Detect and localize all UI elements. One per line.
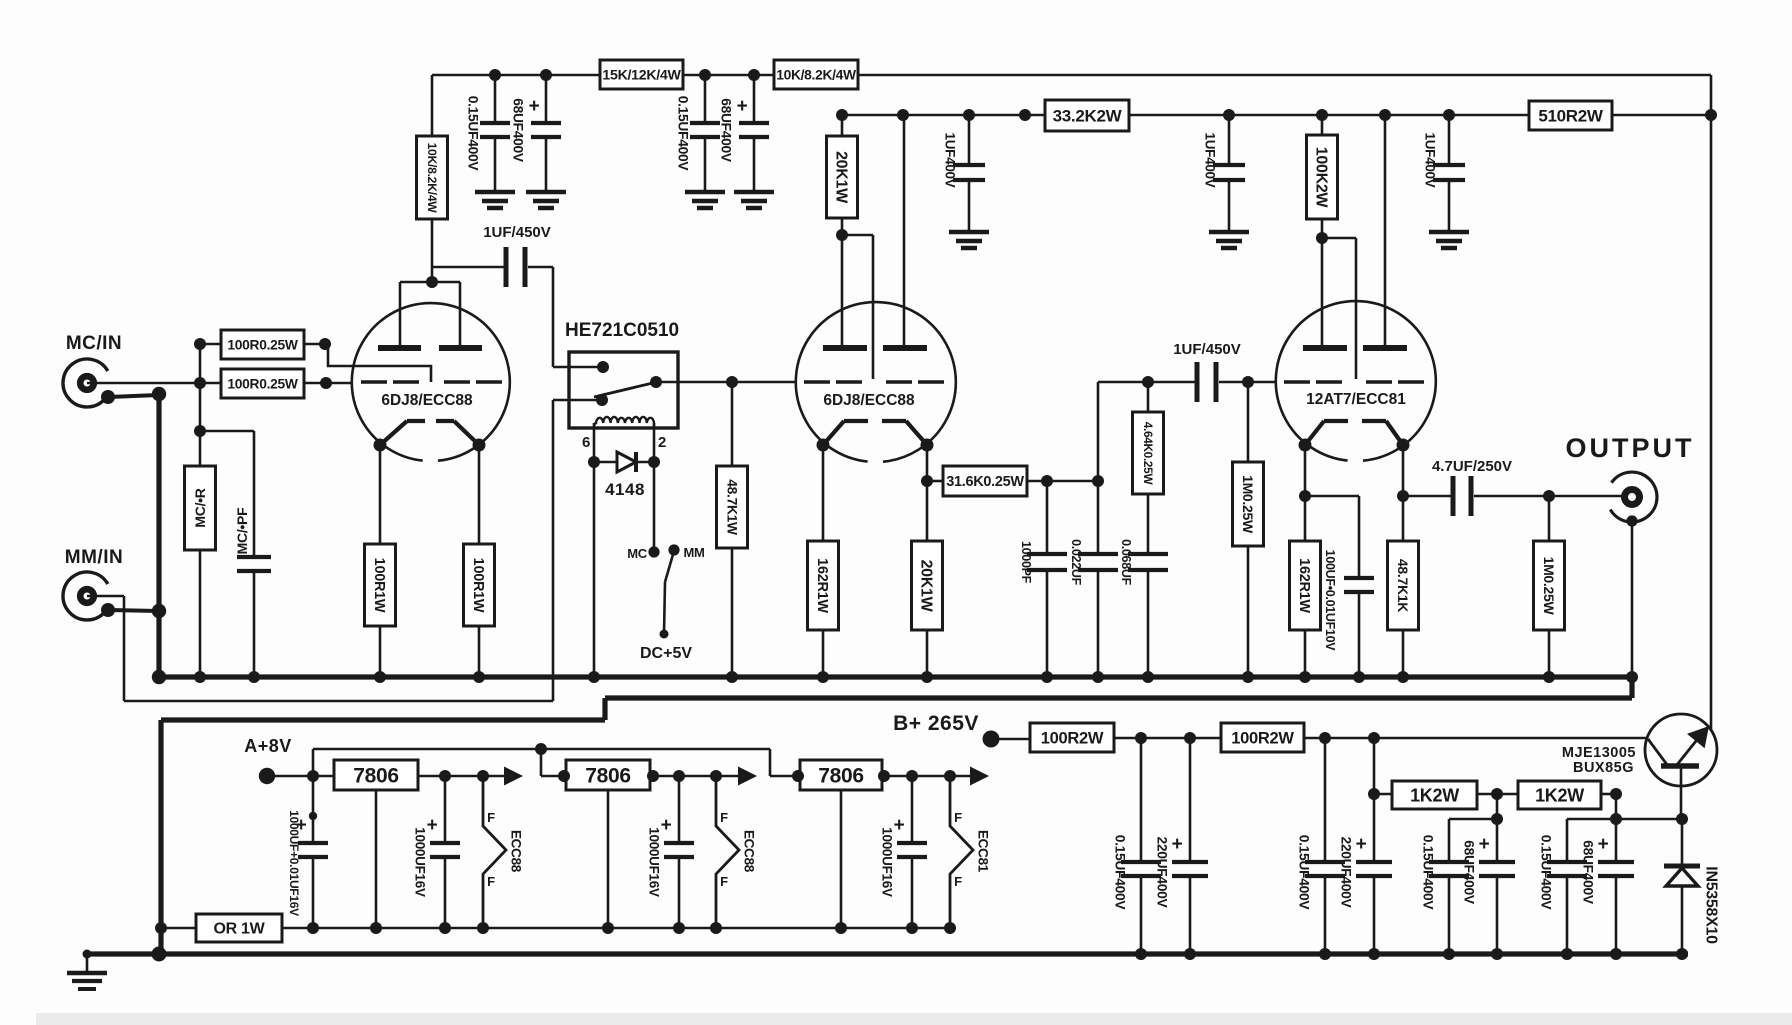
svg-text:0.15UF400V: 0.15UF400V — [1296, 835, 1311, 911]
wire filter node 4 — [1567, 818, 1616, 821]
arrow to next stage 1 — [504, 767, 523, 786]
svg-text:F: F — [720, 810, 728, 825]
capacitor 1000UF16V stage2 — [678, 776, 681, 843]
relay coil pin 6 lead — [593, 423, 596, 462]
resistor 1K2W — [1518, 781, 1601, 809]
resistor 33.2K2W — [1045, 100, 1129, 131]
resistor 4.64K0.25W — [1133, 412, 1164, 494]
node 1K2W input — [1368, 788, 1380, 800]
svg-text:100R2W: 100R2W — [1041, 729, 1104, 747]
relay switch arm — [594, 382, 657, 397]
resistor 1M0.25W — [1233, 462, 1264, 546]
7806#2 ground pin — [607, 790, 610, 928]
MM jack shield tab — [101, 603, 115, 617]
capacitor 1UF/450V coupling (V2 to V3) — [1195, 362, 1200, 402]
connector MM/IN RCA jack — [63, 572, 108, 620]
wire rail drop to regulator 2 — [540, 749, 543, 776]
resistor 100R1W — [365, 544, 396, 626]
svg-text:1UF400V: 1UF400V — [1422, 133, 1437, 188]
svg-text:4148: 4148 — [605, 480, 645, 499]
svg-text:2: 2 — [658, 434, 666, 451]
svg-text:MM: MM — [683, 545, 704, 560]
svg-text:68UF400V: 68UF400V — [718, 98, 733, 163]
svg-text:100R1W: 100R1W — [371, 558, 387, 613]
node 1M grid leak tap — [1242, 376, 1254, 388]
resistor 10K/8.2K/4W — [774, 60, 858, 89]
svg-text:100UF•0.01UF10V: 100UF•0.01UF10V — [1323, 550, 1337, 652]
ground — [475, 190, 515, 195]
V3 grid dashed line — [1284, 380, 1310, 384]
svg-text:F: F — [487, 874, 495, 889]
arrow to next stage 2 — [738, 767, 757, 786]
svg-text:1K2W: 1K2W — [1410, 785, 1459, 805]
resistor 20K1W — [912, 541, 943, 630]
wire pin2 to MC contact — [653, 462, 656, 552]
resistor 100K2W — [1307, 135, 1338, 219]
switch contact MC — [648, 546, 659, 557]
svg-text:4.7UF/250V: 4.7UF/250V — [1432, 458, 1512, 475]
svg-text:6DJ8/ECC88: 6DJ8/ECC88 — [823, 392, 915, 409]
svg-text:BUX85G: BUX85G — [1573, 760, 1634, 776]
capacitor 4.7UF/250V output coupling — [1403, 495, 1451, 498]
capacitor 1000UF+0.01UF16V — [312, 776, 315, 843]
capacitor 68UF400V (filter 3) — [1496, 819, 1499, 862]
V1 cathode leads — [380, 421, 407, 445]
wire 100R2W#2 to transistor base — [1304, 737, 1646, 740]
wire branch to coupling cap — [432, 266, 505, 269]
ground symbol main — [86, 954, 89, 973]
wire V3 grid feed — [1322, 237, 1356, 240]
svg-text:A+8V: A+8V — [244, 736, 292, 756]
node V2 anode/grid tie — [836, 229, 848, 241]
capacitor 1000UF16V stage1 — [444, 776, 447, 843]
node V2 cathode / 31.6K — [921, 475, 933, 487]
relay coil — [594, 417, 654, 429]
wire 7806#2 output — [650, 775, 738, 778]
svg-text:0.15UF400V: 0.15UF400V — [1112, 835, 1127, 911]
relay HE721C0510 body — [569, 352, 678, 428]
svg-text:10K/8.2K/4W: 10K/8.2K/4W — [425, 143, 439, 214]
svg-text:6: 6 — [582, 434, 590, 451]
svg-text:162R1W: 162R1W — [814, 558, 830, 613]
heater symbol ECC81 (stage3) — [950, 776, 973, 928]
V1 anode plate left — [378, 345, 421, 351]
capacitor 0.15UF400V (filter 4) — [1566, 819, 1569, 862]
svg-text:48.7K1K: 48.7K1K — [1395, 559, 1411, 612]
junction dots bottom bus — [83, 950, 92, 959]
wire 7806#3 output — [882, 775, 970, 778]
V3 cathode dashes — [1324, 419, 1348, 423]
resistor OR 1W — [196, 914, 282, 942]
svg-text:+: + — [529, 96, 540, 117]
relay fixed contact (from MC stage) — [597, 361, 609, 373]
capacitor 100UF+0.01UF10V bypass — [1305, 495, 1359, 498]
svg-text:1000UF16V: 1000UF16V — [412, 827, 427, 897]
resistor 162R1W — [808, 541, 839, 630]
svg-text:B+ 265V: B+ 265V — [893, 712, 979, 735]
svg-text:1UF400V: 1UF400V — [1202, 133, 1217, 188]
V3 anode plate left — [1303, 345, 1347, 351]
wire R2 output to V1 grid — [326, 382, 353, 385]
resistor 31.6K0.25W — [927, 480, 943, 483]
ground bus step down — [602, 698, 607, 720]
capacitor 68UF400V electrolytic (second PSU filter) — [753, 75, 756, 123]
svg-text:1K2W: 1K2W — [1535, 785, 1584, 805]
node tap for 0.15UF cap — [489, 69, 501, 81]
capacitor MC/•PF — [237, 555, 271, 559]
svg-text:20K1W: 20K1W — [833, 151, 850, 204]
svg-text:HE721C0510: HE721C0510 — [565, 320, 679, 341]
svg-text:ECC88: ECC88 — [741, 830, 756, 873]
resistor 48.7K1W — [717, 466, 748, 548]
ground — [685, 190, 725, 195]
resistor 31.6K0.25W — [943, 466, 1027, 496]
ground bus elbow right — [1629, 677, 1634, 698]
svg-text:162R1W: 162R1W — [1296, 558, 1312, 613]
wire B+ to 100R2W — [991, 738, 1030, 741]
svg-text:68UF400V: 68UF400V — [510, 98, 525, 163]
svg-text:1UF400V: 1UF400V — [942, 133, 957, 188]
resistor 1M0.25W V3 grid leak — [1247, 382, 1250, 462]
svg-text:7806: 7806 — [353, 764, 399, 787]
wire cap to relay common — [528, 266, 553, 269]
svg-text:ECC88: ECC88 — [508, 830, 523, 873]
footer gray strip (decor) — [36, 1013, 1792, 1025]
ground — [949, 230, 989, 235]
svg-text:F: F — [487, 810, 495, 825]
triode V1 6DJ8/ECC88 envelope — [352, 303, 510, 461]
relay movable contact pivot — [596, 394, 608, 406]
svg-text:100R1W: 100R1W — [470, 558, 486, 613]
resistor MC/•R — [185, 466, 216, 550]
wire filter node 3 — [1449, 818, 1497, 821]
DC control switch arm — [665, 551, 674, 582]
resistor 1M0.25W — [1534, 541, 1565, 630]
node 0.022UF tap / riser — [1092, 475, 1104, 487]
svg-text:68UF400V: 68UF400V — [1461, 840, 1476, 905]
svg-text:0.15UF400V: 0.15UF400V — [675, 96, 690, 172]
svg-text:100R2W: 100R2W — [1231, 729, 1294, 747]
wire to emitter node — [1616, 818, 1682, 821]
resistor 100R2W — [1030, 723, 1114, 752]
ground — [526, 190, 566, 195]
resistor 7806 — [566, 760, 650, 790]
node left cathode / bypass tap — [1299, 490, 1311, 502]
resistor 162R1W V2 left cathode — [822, 445, 825, 541]
resistor 7806 — [334, 760, 418, 790]
resistor 100R0.25W — [221, 330, 304, 359]
resistor 100R0.25W — [221, 369, 304, 398]
capacitor 1UF400V decoupling 2 — [1228, 115, 1231, 165]
capacitor 1UF/450V coupling (V1 anode) — [504, 247, 509, 287]
svg-text:F: F — [954, 810, 962, 825]
svg-text:0.15UF400V: 0.15UF400V — [1420, 835, 1435, 911]
wire rail drop to regulator 3 — [769, 749, 772, 776]
wire B+ sub-rail segment 1 — [842, 114, 1045, 117]
svg-text:1M0.25W: 1M0.25W — [1541, 557, 1557, 616]
svg-text:20K1W: 20K1W — [918, 560, 935, 613]
wire V2 right cathode — [926, 445, 929, 541]
svg-text:MC/IN: MC/IN — [66, 333, 122, 354]
wire V1 cathode left to resistor — [379, 445, 382, 544]
resistor 510R2W — [1529, 101, 1612, 130]
svg-text:12AT7/ECC81: 12AT7/ECC81 — [1306, 391, 1406, 408]
svg-text:48.7K1W: 48.7K1W — [724, 479, 739, 536]
V2 anode plate right — [883, 345, 927, 351]
wire top B+ rail segment 3 — [858, 74, 1711, 77]
resistor 1M0.25W output load — [1548, 496, 1551, 541]
connector OUTPUT RCA jack — [1610, 472, 1657, 522]
capacitor 0.15UF400V (filter 3) — [1448, 819, 1451, 862]
svg-text:OUTPUT: OUTPUT — [1566, 433, 1695, 463]
Q1 emitter lead — [1680, 766, 1683, 819]
MC jack shield tab — [101, 390, 115, 404]
wire right-side vertical (collector riser) — [1710, 75, 1713, 731]
terminal A+8V — [259, 768, 275, 784]
capacitor 220UF400V (B+ filter 1) — [1189, 738, 1192, 862]
heater symbol ECC88 (stage1) — [483, 776, 506, 928]
Q1 base diagonal — [1648, 739, 1668, 766]
svg-text:F: F — [720, 874, 728, 889]
ground bus return (thick) — [605, 695, 1632, 700]
node tap for 68UF cap — [540, 69, 552, 81]
wire V1 cathode right to resistor — [478, 445, 481, 544]
svg-text:220UF400V: 220UF400V — [1154, 837, 1169, 909]
svg-text:100K2W: 100K2W — [1313, 147, 1330, 209]
resistor 10K/8.2K/4W — [417, 136, 448, 219]
V3 anode plate right — [1363, 345, 1407, 351]
wire pin6 to ground bus — [593, 462, 596, 677]
svg-text:100R0.25W: 100R0.25W — [227, 376, 298, 391]
svg-text:0.068UF: 0.068UF — [1119, 539, 1133, 586]
svg-text:ECC81: ECC81 — [975, 830, 990, 873]
wire down to filter node 3 — [1496, 794, 1499, 819]
svg-text:1UF/450V: 1UF/450V — [483, 224, 551, 241]
resistor OR 1W — [161, 927, 196, 930]
svg-text:1000UF+0.01UF16V: 1000UF+0.01UF16V — [287, 810, 301, 916]
svg-text:MJE13005: MJE13005 — [1562, 745, 1636, 761]
connector MC/IN RCA jack — [63, 359, 108, 407]
wire top B+ rail segment 2 — [683, 74, 774, 77]
svg-text:0.022UF: 0.022UF — [1069, 539, 1083, 586]
V2 cathode dashes — [844, 419, 868, 423]
wire between 100R resistors — [1114, 737, 1221, 740]
wire R1 output to V1 grid (stepped) — [325, 344, 431, 382]
svg-text:IN5358X10: IN5358X10 — [1703, 866, 1720, 944]
node V3 anode/grid tie — [1316, 232, 1328, 244]
V3 cathode leads — [1305, 421, 1324, 445]
svg-text:510R2W: 510R2W — [1538, 106, 1604, 125]
diode IN5358X10 zener — [1681, 819, 1684, 866]
svg-text:+: + — [1479, 834, 1490, 855]
node 4.64K top — [1142, 376, 1154, 388]
svg-text:+: + — [1356, 834, 1367, 855]
resistor 15K/12K/4W — [600, 60, 683, 89]
capacitor 0.022UF — [1097, 481, 1100, 554]
V1 grid dashed line — [361, 380, 387, 384]
V1 cathode dashes — [407, 419, 425, 423]
junction dots on main ground bus — [152, 670, 166, 684]
resistor 4.64K0.25W — [1147, 382, 1150, 412]
capacitor 1000UF16V stage3 — [911, 776, 914, 843]
wire 7806#1 output — [418, 775, 504, 778]
svg-text:+: + — [1172, 834, 1183, 855]
svg-text:0.15UF400V: 0.15UF400V — [465, 96, 480, 172]
svg-text:DC+5V: DC+5V — [640, 645, 692, 662]
svg-text:4.64K0.25W: 4.64K0.25W — [1141, 422, 1155, 486]
resistor 162R1W — [1290, 541, 1321, 630]
V2 cathode leads — [823, 421, 844, 445]
wire MM routing to relay — [124, 700, 553, 703]
heater feed rail — [313, 748, 770, 751]
capacitor 1000PF — [1046, 481, 1049, 554]
node right cathode / output tap — [1397, 490, 1409, 502]
ground — [1429, 230, 1469, 235]
resistor 7806 — [800, 760, 882, 790]
svg-text:1000PF: 1000PF — [1019, 541, 1033, 584]
svg-text:31.6K0.25W: 31.6K0.25W — [946, 474, 1024, 490]
wire V3 left cathode — [1304, 445, 1307, 541]
svg-text:1000UF16V: 1000UF16V — [646, 827, 661, 897]
capacitor 0.15UF400V (second PSU filter) — [704, 75, 707, 123]
wire resistor to coupling cap node — [431, 219, 434, 282]
wire shield ground riser (thick) — [156, 394, 161, 677]
resistor 48.7K1K — [1388, 541, 1419, 630]
svg-text:MC: MC — [627, 546, 648, 561]
ground — [734, 190, 774, 195]
node between 1K2W — [1491, 788, 1503, 800]
resistor 20K1W V2 plate load — [841, 115, 844, 136]
capacitor 0.15UF400V (B+ filter 1) — [1140, 738, 1143, 862]
resistor 100R1W — [464, 544, 495, 626]
resistor 48.7K1W grid leak — [726, 376, 738, 388]
wire cap to V3 grid — [1219, 381, 1276, 384]
svg-text:MM/IN: MM/IN — [65, 547, 123, 568]
svg-text:F: F — [954, 874, 962, 889]
wire RIAA node riser — [1097, 382, 1100, 481]
arrow output stage 3 — [970, 767, 989, 786]
resistor 1K2W — [1392, 781, 1477, 809]
node after input resistor 1 — [319, 338, 331, 350]
svg-text:1000UF16V: 1000UF16V — [879, 827, 894, 897]
node 1K2W output — [1610, 788, 1622, 800]
svg-text:220UF400V: 220UF400V — [1338, 837, 1353, 909]
wire OUTPUT shield to ground bus — [1631, 521, 1634, 677]
Q1 base bar — [1661, 763, 1699, 769]
resistor 100K2W V3 plate load — [1321, 115, 1324, 135]
7806#3 ground pin — [840, 790, 843, 928]
capacitor 1UF400V decoupling 3 — [1448, 115, 1451, 165]
node 1000PF tap — [1041, 475, 1053, 487]
capacitor 0.15UF400V (B+ filter 2) — [1324, 738, 1327, 862]
OUTPUT jack shield tab — [1626, 515, 1637, 526]
wire V3 right cathode — [1402, 445, 1405, 541]
wire B+ sub-rail segment 2 — [1129, 114, 1529, 117]
svg-text:100R0.25W: 100R0.25W — [227, 337, 298, 352]
capacitor 0.15UF400V (first PSU filter) — [494, 75, 497, 123]
node output / 1M tap — [1543, 490, 1555, 502]
svg-text:15K/12K/4W: 15K/12K/4W — [602, 67, 681, 83]
capacitor 1UF400V decoupling 1 — [968, 115, 971, 165]
svg-text:1UF/450V: 1UF/450V — [1173, 341, 1241, 358]
node sub-rail to collector riser — [1705, 109, 1717, 121]
wire MM center pin — [87, 595, 124, 598]
V1 anode plate right — [439, 345, 482, 351]
wire B+ sub-rail segment 3 — [1612, 114, 1711, 117]
svg-text:0.15UF400V: 0.15UF400V — [1538, 835, 1553, 911]
wire MC center pin to input resistors — [87, 382, 200, 385]
ground bus lower left (thick) — [161, 717, 605, 722]
node tap for 0.15UF cap 2 — [699, 69, 711, 81]
Q1 collector diagonal with arrow — [1676, 736, 1700, 766]
V2 anode plate left — [823, 345, 867, 351]
ground — [1209, 230, 1249, 235]
wire V2 right anode to rail — [903, 115, 906, 348]
ground left border (thick) — [158, 720, 163, 954]
svg-text:+: + — [1598, 834, 1609, 855]
node after input resistor 2 — [320, 377, 332, 389]
svg-text:7806: 7806 — [585, 764, 631, 787]
svg-text:33.2K2W: 33.2K2W — [1053, 106, 1123, 125]
wire relay output to V2 grid — [656, 381, 796, 384]
wire A+8V to regulator 1 — [267, 775, 334, 778]
ground bottom bus (thick) — [87, 951, 1688, 956]
diode 4148 flyback — [588, 456, 600, 468]
svg-text:6DJ8/ECC88: 6DJ8/ECC88 — [381, 392, 473, 409]
capacitor 0.068UF — [1147, 494, 1150, 554]
wire top B+ rail segment 1 — [432, 74, 600, 77]
wire V2 grid feed — [842, 234, 873, 237]
triode V2 6DJ8/ECC88 envelope — [796, 302, 956, 462]
V1 anode bracket — [400, 281, 460, 284]
wire MC/R to ground bus — [199, 550, 202, 677]
triode V3 12AT7/ECC81 envelope — [1276, 301, 1436, 461]
svg-text:MC/•PF: MC/•PF — [234, 507, 250, 554]
PSU internal ground rail — [282, 927, 956, 930]
switch contact MM — [668, 544, 679, 555]
resistor 20K1W — [827, 136, 858, 218]
wire left drop from top rail to series resistor — [431, 75, 434, 136]
heater symbol ECC88 (stage2) — [716, 776, 739, 928]
svg-text:1M0.25W: 1M0.25W — [1240, 475, 1256, 534]
resistor 100R2W — [1221, 723, 1304, 752]
wire input node vertical — [199, 344, 202, 466]
capacitor 220UF400V (B+ filter 2) — [1373, 738, 1376, 862]
svg-text:68UF400V: 68UF400V — [1580, 840, 1595, 905]
svg-text:+: + — [737, 96, 748, 117]
svg-text:10K/8.2K/4W: 10K/8.2K/4W — [776, 67, 857, 82]
capacitor 68UF400V electrolytic (first PSU filter) — [545, 75, 548, 123]
svg-text:OR 1W: OR 1W — [214, 921, 266, 938]
transistor Q1 MJE13005/BUX85G — [1645, 714, 1717, 786]
wire heater rail riser — [312, 749, 315, 776]
capacitor 68UF400V (filter 4) — [1615, 819, 1618, 862]
svg-text:7806: 7806 — [818, 764, 864, 787]
ground bus (main, thick) — [159, 674, 1632, 679]
7806#1 ground pin — [375, 790, 378, 928]
wire V3 right anode to rail — [1384, 115, 1387, 348]
relay coil pin 2 lead — [653, 423, 656, 462]
svg-text:MC/•R: MC/•R — [192, 488, 208, 527]
terminal B+ 265V — [983, 731, 1000, 748]
wire branch to MC/PF cap — [200, 430, 254, 433]
resistor 1K2W #1 — [1374, 793, 1392, 796]
V2 grid dashed line — [804, 380, 830, 384]
wire leads 100R resistors — [200, 343, 221, 346]
node tap for 68UF cap 2 — [748, 69, 760, 81]
